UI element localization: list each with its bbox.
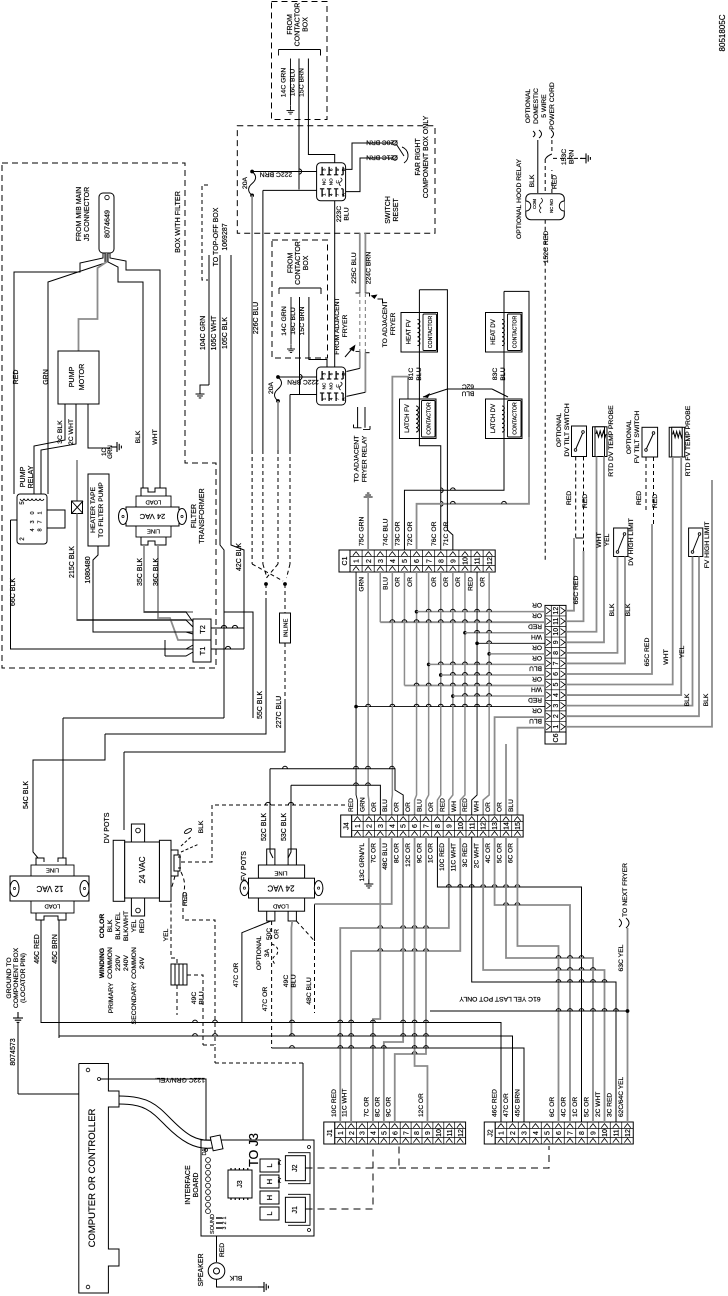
svg-text:FV POTS: FV POTS — [241, 851, 248, 881]
svg-text:BLK/YEL: BLK/YEL — [115, 912, 122, 940]
svg-text:TO FILTER PUMP: TO FILTER PUMP — [98, 482, 105, 538]
svg-text:4: 4 — [371, 1131, 378, 1135]
svg-text:BLU: BLU — [508, 799, 515, 812]
svg-text:OR: OR — [405, 802, 412, 812]
svg-text:12: 12 — [553, 607, 560, 615]
svg-text:12 VAC: 12 VAC — [36, 884, 63, 893]
svg-text:81C: 81C — [408, 368, 415, 381]
svg-text:RED: RED — [528, 696, 542, 703]
svg-text:3A: 3A — [264, 948, 271, 957]
svg-text:INLINE: INLINE — [284, 619, 290, 638]
svg-text:12: 12 — [625, 1129, 632, 1137]
svg-text:45C BRN: 45C BRN — [52, 934, 59, 964]
svg-text:62C: 62C — [462, 383, 474, 390]
svg-text:BLK: BLK — [625, 603, 632, 616]
svg-text:DV HIGH LIMIT: DV HIGH LIMIT — [628, 518, 635, 566]
svg-text:D1: D1 — [202, 1148, 208, 1155]
svg-text:215C BLK: 215C BLK — [69, 546, 76, 578]
svg-text:74C BLU: 74C BLU — [383, 518, 390, 546]
svg-text:63C YEL: 63C YEL — [618, 944, 625, 971]
svg-text:WH: WH — [474, 801, 481, 812]
svg-text:1C OR: 1C OR — [428, 843, 435, 863]
svg-text:YEL: YEL — [131, 919, 138, 932]
svg-text:RELAY: RELAY — [26, 465, 35, 488]
svg-text:CONTACTOR: CONTACTOR — [513, 402, 519, 435]
svg-text:223C: 223C — [336, 206, 343, 222]
svg-text:OR: OR — [371, 802, 378, 812]
svg-text:14C GRN: 14C GRN — [281, 68, 288, 98]
svg-text:TRANSFORMER: TRANSFORMER — [197, 488, 206, 544]
svg-text:3: 3 — [30, 520, 36, 523]
svg-text:BLK: BLK — [107, 919, 114, 932]
svg-text:3C RED: 3C RED — [607, 1093, 614, 1117]
svg-text:HEATER TAPE: HEATER TAPE — [90, 486, 97, 533]
svg-text:6: 6 — [412, 824, 419, 828]
svg-text:240V: 240V — [123, 955, 130, 971]
svg-text:65C RED: 65C RED — [573, 576, 580, 605]
svg-text:BLU: BLU — [199, 991, 206, 1004]
svg-text:RED: RED — [552, 175, 559, 189]
svg-text:OR: OR — [443, 577, 450, 587]
svg-text:LINE: LINE — [46, 867, 59, 873]
svg-text:3: 3 — [522, 1131, 529, 1135]
svg-text:3: 3 — [553, 704, 560, 708]
svg-text:BLK: BLK — [684, 693, 691, 706]
svg-text:RTD FV TEMP PROBE: RTD FV TEMP PROBE — [685, 405, 692, 476]
svg-text:T1: T1 — [198, 647, 207, 656]
svg-text:WH: WH — [451, 801, 458, 812]
svg-text:GRN: GRN — [43, 369, 50, 385]
svg-text:J2: J2 — [487, 1129, 494, 1137]
svg-text:47C OR: 47C OR — [262, 987, 269, 1012]
svg-text:8: 8 — [38, 528, 44, 531]
svg-text:BLU: BLU — [383, 577, 390, 590]
svg-text:7C OR: 7C OR — [363, 1097, 370, 1117]
svg-text:4: 4 — [390, 559, 397, 563]
svg-text:DOMESTIC: DOMESTIC — [533, 88, 540, 124]
svg-text:6C OR: 6C OR — [549, 1097, 556, 1117]
svg-text:2: 2 — [553, 714, 560, 718]
svg-text:11: 11 — [614, 1129, 621, 1136]
svg-text:GRN: GRN — [358, 577, 365, 592]
svg-text:OPTIONAL: OPTIONAL — [256, 936, 263, 971]
svg-text:J4: J4 — [344, 822, 351, 830]
svg-text:9: 9 — [425, 1131, 432, 1135]
svg-text:105C BLK: 105C BLK — [222, 317, 229, 349]
svg-text:OR: OR — [532, 643, 542, 650]
svg-text:20A: 20A — [268, 381, 275, 394]
svg-text:J1: J1 — [327, 1129, 334, 1137]
svg-text:5: 5 — [401, 824, 408, 828]
svg-text:C1: C1 — [342, 556, 349, 565]
svg-text:BLU: BLU — [416, 799, 423, 812]
svg-text:YEL: YEL — [604, 533, 611, 546]
svg-text:5: 5 — [553, 682, 560, 686]
svg-text:1: 1 — [354, 559, 361, 563]
svg-text:LINE: LINE — [147, 528, 160, 534]
svg-text:4: 4 — [553, 693, 560, 697]
svg-text:105C WHT: 105C WHT — [211, 315, 218, 350]
svg-text:COM: COM — [532, 199, 537, 209]
svg-text:48C BLU: 48C BLU — [382, 843, 389, 870]
svg-text:OR: OR — [479, 577, 486, 587]
svg-text:RED: RED — [439, 798, 446, 812]
svg-text:SWITCH: SWITCH — [385, 196, 392, 224]
svg-text:BLU: BLU — [461, 390, 474, 397]
svg-text:OR: OR — [485, 802, 492, 812]
svg-text:WHT: WHT — [152, 429, 159, 444]
svg-text:SECONDARY: SECONDARY — [131, 981, 138, 1024]
svg-text:12: 12 — [458, 1129, 465, 1137]
svg-text:1C OR: 1C OR — [572, 1097, 579, 1117]
svg-text:6: 6 — [553, 672, 560, 676]
svg-text:224C BRN: 224C BRN — [366, 252, 373, 285]
svg-text:47C OR: 47C OR — [503, 1093, 510, 1117]
svg-text:COMPONENT BOX ONLY: COMPONENT BOX ONLY — [423, 115, 430, 198]
svg-text:8051805C: 8051805C — [718, 14, 727, 51]
svg-text:LOAD: LOAD — [146, 499, 162, 505]
svg-text:2C WHT: 2C WHT — [473, 843, 480, 868]
svg-text:J3: J3 — [237, 1180, 244, 1188]
svg-text:TO ADJACENT: TO ADJACENT — [382, 301, 389, 348]
svg-text:50C: 50C — [266, 928, 273, 940]
svg-text:SPEAKER: SPEAKER — [198, 1253, 205, 1286]
svg-text:BLK: BLK — [135, 430, 142, 443]
svg-text:10C RED: 10C RED — [331, 1089, 338, 1117]
svg-text:7C OR: 7C OR — [371, 843, 378, 863]
svg-text:24 VAC: 24 VAC — [139, 512, 165, 521]
svg-text:WINDING: WINDING — [99, 948, 106, 978]
svg-text:1: 1 — [38, 511, 44, 514]
svg-text:HEAT DV: HEAT DV — [491, 319, 497, 344]
svg-text:PRIMARY: PRIMARY — [108, 982, 115, 1013]
svg-text:3C RED: 3C RED — [462, 843, 469, 867]
svg-text:CONTACTOR: CONTACTOR — [295, 3, 302, 47]
svg-text:COMMON: COMMON — [107, 947, 114, 979]
svg-text:L: L — [265, 1211, 274, 1215]
svg-text:1069287: 1069287 — [222, 223, 229, 250]
svg-text:10: 10 — [463, 557, 470, 565]
svg-text:COMPUTER OR CONTROLLER: COMPUTER OR CONTROLLER — [87, 1108, 98, 1247]
svg-text:3: 3 — [378, 559, 385, 563]
svg-text:WHT: WHT — [663, 649, 670, 664]
svg-text:7: 7 — [568, 1131, 575, 1135]
svg-text:20A: 20A — [242, 176, 249, 189]
svg-text:54C BLK: 54C BLK — [23, 781, 30, 809]
svg-text:FRYER RELAY: FRYER RELAY — [362, 435, 369, 482]
svg-text:NO: NO — [329, 382, 334, 389]
svg-text:OR: OR — [532, 654, 542, 661]
svg-text:13C GRN/YL: 13C GRN/YL — [359, 843, 366, 882]
svg-text:LATCH FV: LATCH FV — [405, 404, 411, 433]
svg-text:11: 11 — [469, 822, 476, 829]
svg-text:FV HIGH LIMIT: FV HIGH LIMIT — [704, 522, 711, 569]
svg-text:62C/64C YEL: 62C/64C YEL — [618, 1076, 625, 1117]
svg-text:5: 5 — [545, 1131, 552, 1135]
svg-text:RED: RED — [652, 494, 659, 508]
svg-text:220V: 220V — [115, 955, 122, 971]
svg-text:BLU: BLU — [529, 717, 542, 724]
svg-text:48C BLU: 48C BLU — [306, 977, 313, 1005]
svg-text:10: 10 — [458, 822, 465, 830]
svg-text:73C OR: 73C OR — [395, 521, 402, 546]
svg-text:8C OR: 8C OR — [374, 1097, 381, 1117]
svg-text:OR: OR — [497, 802, 504, 812]
svg-text:RED: RED — [566, 491, 573, 505]
svg-text:53C BLK: 53C BLK — [281, 813, 288, 841]
svg-text:5 WIRE: 5 WIRE — [541, 94, 548, 118]
svg-text:14: 14 — [504, 822, 511, 830]
svg-text:2: 2 — [366, 824, 373, 828]
svg-text:RED: RED — [219, 1243, 226, 1257]
svg-text:12C OR: 12C OR — [405, 843, 412, 867]
svg-text:J2: J2 — [292, 1164, 299, 1172]
svg-text:BOX: BOX — [302, 17, 309, 32]
svg-text:LATCH DV: LATCH DV — [491, 404, 497, 433]
svg-text:13: 13 — [492, 822, 499, 830]
svg-text:RED: RED — [462, 798, 469, 812]
svg-text:BLK: BLK — [198, 820, 205, 833]
svg-text:RED: RED — [467, 577, 474, 591]
svg-text:COMPONENT BOX: COMPONENT BOX — [13, 947, 20, 1008]
svg-text:OR: OR — [532, 675, 542, 682]
svg-text:49C: 49C — [283, 975, 290, 988]
svg-text:FROM: FROM — [288, 253, 295, 274]
svg-text:BLU: BLU — [382, 799, 389, 812]
svg-text:BLK: BLK — [529, 174, 536, 187]
svg-text:24 VAC: 24 VAC — [138, 856, 147, 883]
svg-text:FROM MIB MAIN: FROM MIB MAIN — [76, 187, 83, 241]
svg-text:(LOCATOR PIN): (LOCATOR PIN) — [20, 953, 27, 1003]
svg-text:INTERFACE: INTERFACE — [185, 1165, 192, 1205]
svg-text:8: 8 — [414, 1131, 421, 1135]
svg-text:8C OR: 8C OR — [393, 843, 400, 863]
svg-text:8074649: 8074649 — [103, 210, 112, 238]
svg-text:BOX: BOX — [303, 255, 310, 270]
svg-text:B: B — [341, 168, 346, 171]
svg-text:L: L — [265, 1163, 274, 1167]
svg-text:10: 10 — [553, 628, 560, 636]
svg-text:TO ADJACENT: TO ADJACENT — [354, 436, 361, 483]
svg-text:J1: J1 — [292, 1206, 299, 1214]
svg-text:LOAD: LOAD — [273, 903, 289, 909]
svg-text:YEL: YEL — [163, 928, 170, 941]
svg-text:FRYER: FRYER — [342, 314, 349, 337]
svg-text:7: 7 — [553, 661, 560, 665]
svg-text:5C OR: 5C OR — [496, 843, 503, 863]
svg-text:CONTACTOR: CONTACTOR — [295, 241, 302, 285]
svg-text:7: 7 — [38, 520, 44, 523]
svg-text:GROUND TO: GROUND TO — [6, 957, 13, 998]
svg-text:2: 2 — [510, 1131, 517, 1135]
svg-text:75C GRN: 75C GRN — [358, 516, 365, 546]
svg-text:227C BLU: 227C BLU — [276, 696, 283, 728]
svg-text:H: H — [265, 1179, 274, 1184]
svg-text:NC NO: NC NO — [549, 198, 554, 213]
svg-text:9: 9 — [450, 559, 457, 563]
svg-text:9: 9 — [446, 824, 453, 828]
svg-text:COLOR: COLOR — [99, 914, 106, 939]
svg-text:8: 8 — [435, 824, 442, 828]
svg-text:16C BLU: 16C BLU — [290, 307, 297, 335]
svg-text:5: 5 — [381, 1131, 388, 1135]
svg-text:T2: T2 — [198, 625, 207, 634]
svg-text:12: 12 — [481, 822, 488, 830]
svg-text:46C RED: 46C RED — [34, 934, 41, 964]
svg-text:2: 2 — [222, 1221, 228, 1224]
svg-text:11: 11 — [475, 557, 482, 564]
svg-text:6: 6 — [392, 1131, 399, 1135]
svg-text:1: 1 — [355, 824, 362, 828]
svg-text:CONTACTOR: CONTACTOR — [428, 316, 434, 349]
svg-text:8074573: 8074573 — [10, 1038, 17, 1065]
svg-text:OR: OR — [455, 577, 462, 587]
svg-text:36C BLK: 36C BLK — [153, 558, 160, 586]
svg-text:8: 8 — [438, 559, 445, 563]
svg-text:3: 3 — [378, 824, 385, 828]
svg-text:45C BRN: 45C BRN — [515, 1089, 522, 1117]
svg-text:6: 6 — [414, 559, 421, 563]
svg-text:47C OR: 47C OR — [233, 963, 240, 988]
svg-text:65C RED: 65C RED — [644, 638, 651, 667]
svg-text:5: 5 — [402, 559, 409, 563]
svg-text:WH: WH — [531, 633, 542, 640]
svg-text:BRN: BRN — [569, 150, 576, 164]
svg-text:CONTACTOR: CONTACTOR — [427, 402, 433, 435]
svg-text:SOUND: SOUND — [210, 1214, 216, 1234]
svg-text:6C OR: 6C OR — [508, 843, 515, 863]
svg-text:COMMON: COMMON — [131, 947, 138, 979]
svg-text:11C WHT: 11C WHT — [451, 843, 458, 871]
svg-text:A: A — [341, 397, 346, 400]
svg-text:WH: WH — [531, 686, 542, 693]
svg-text:10: 10 — [602, 1129, 609, 1137]
svg-text:1: 1 — [222, 1216, 228, 1219]
svg-text:LINE: LINE — [274, 870, 287, 876]
svg-text:BLU: BLU — [291, 974, 298, 987]
svg-text:GRN: GRN — [107, 445, 114, 459]
svg-text:B: B — [341, 372, 346, 375]
svg-text:YEL: YEL — [679, 645, 686, 658]
svg-text:FV: FV — [277, 1177, 282, 1183]
svg-text:35C BLK: 35C BLK — [137, 558, 144, 586]
svg-text:FRYER: FRYER — [390, 312, 397, 335]
svg-text:153C: 153C — [561, 149, 568, 165]
svg-text:9: 9 — [553, 640, 560, 644]
svg-text:14C GRN: 14C GRN — [281, 306, 288, 336]
svg-text:OR: OR — [431, 577, 438, 587]
svg-text:FROM: FROM — [287, 14, 294, 35]
svg-text:15C BRN: 15C BRN — [299, 307, 306, 336]
svg-text:16C BLU: 16C BLU — [290, 69, 297, 97]
svg-text:4: 4 — [30, 528, 36, 531]
svg-text:4C OR: 4C OR — [561, 1097, 568, 1117]
svg-text:RED: RED — [528, 622, 542, 629]
svg-text:11C WHT: 11C WHT — [342, 1089, 349, 1117]
svg-text:OR: OR — [395, 577, 402, 587]
svg-text:1: 1 — [553, 725, 560, 729]
svg-text:BLK: BLK — [229, 1274, 242, 1281]
svg-text:OR: OR — [407, 577, 414, 587]
svg-text:2: 2 — [349, 1131, 356, 1135]
svg-text:66C BLK: 66C BLK — [10, 578, 17, 606]
svg-text:BLU: BLU — [529, 664, 542, 671]
svg-text:FROM ADJACENT: FROM ADJACENT — [334, 297, 341, 354]
svg-text:TO NEXT FRYER: TO NEXT FRYER — [622, 863, 629, 917]
svg-text:226C BLU: 226C BLU — [253, 302, 260, 334]
svg-text:BLU: BLU — [500, 367, 507, 380]
svg-text:FAR RIGHT: FAR RIGHT — [415, 138, 422, 176]
svg-text:OPTIONAL HOOD RELAY: OPTIONAL HOOD RELAY — [516, 159, 523, 240]
svg-text:WHT: WHT — [596, 532, 603, 547]
svg-text:15: 15 — [515, 822, 522, 830]
svg-text:52C BLK: 52C BLK — [261, 813, 268, 841]
svg-text:A: A — [341, 193, 346, 196]
svg-text:71C OR: 71C OR — [443, 521, 450, 546]
svg-text:5C OR: 5C OR — [584, 1097, 591, 1117]
svg-text:MOTOR: MOTOR — [77, 364, 86, 391]
svg-text:BLK: BLK — [703, 693, 710, 706]
svg-text:RTD DV TEMP PROBE: RTD DV TEMP PROBE — [608, 405, 615, 477]
svg-text:152C RED: 152C RED — [543, 231, 550, 264]
svg-text:0: 0 — [30, 511, 36, 514]
svg-text:1: 1 — [338, 1131, 345, 1135]
svg-text:12C OR: 12C OR — [418, 1093, 425, 1117]
svg-text:7: 7 — [424, 824, 431, 828]
svg-text:OR: OR — [532, 612, 542, 619]
svg-text:122C GRN/YEL.: 122C GRN/YEL. — [155, 1076, 205, 1083]
svg-text:8: 8 — [579, 1131, 586, 1135]
svg-text:BOARD: BOARD — [193, 1173, 200, 1198]
svg-text:222C BRN: 222C BRN — [287, 378, 319, 385]
svg-text:BLU: BLU — [344, 207, 351, 220]
svg-text:RED: RED — [13, 370, 20, 385]
svg-text:OR: OR — [428, 802, 435, 812]
svg-text:7: 7 — [426, 559, 433, 563]
svg-text:10: 10 — [436, 1129, 443, 1137]
svg-text:NO: NO — [329, 178, 334, 185]
svg-text:H: H — [265, 1195, 274, 1200]
svg-text:OPTIONAL: OPTIONAL — [626, 420, 633, 455]
svg-text:9C OR: 9C OR — [385, 1097, 392, 1117]
svg-text:OR: OR — [394, 802, 401, 812]
svg-text:RESET: RESET — [393, 198, 400, 222]
svg-text:222C BRN: 222C BRN — [260, 171, 293, 178]
svg-text:55C BLK: 55C BLK — [257, 691, 264, 719]
svg-text:6: 6 — [556, 1131, 563, 1135]
svg-text:4C OR: 4C OR — [485, 843, 492, 863]
svg-text:OPTIONAL: OPTIONAL — [525, 89, 532, 124]
svg-text:10C RED: 10C RED — [439, 843, 446, 871]
svg-text:3C BLK: 3C BLK — [57, 420, 64, 444]
svg-text:225C BLU: 225C BLU — [351, 252, 358, 283]
svg-text:CONTACTOR: CONTACTOR — [513, 316, 519, 349]
svg-text:2C WHT: 2C WHT — [595, 1092, 602, 1117]
svg-text:7: 7 — [403, 1131, 410, 1135]
svg-text:GRN: GRN — [359, 797, 366, 812]
svg-text:2C WHT: 2C WHT — [68, 419, 75, 445]
svg-text:BOX WITH FILTER: BOX WITH FILTER — [173, 191, 182, 253]
svg-text:OR: OR — [274, 929, 281, 939]
svg-text:OR: OR — [532, 601, 542, 608]
svg-text:C6: C6 — [553, 733, 560, 742]
svg-text:RED: RED — [139, 919, 146, 933]
svg-text:72C OR: 72C OR — [407, 521, 414, 546]
svg-text:NC: NC — [322, 178, 327, 185]
svg-text:BLK: BLK — [609, 603, 616, 616]
svg-text:NC: NC — [322, 382, 327, 389]
svg-text:BLU: BLU — [416, 367, 423, 380]
